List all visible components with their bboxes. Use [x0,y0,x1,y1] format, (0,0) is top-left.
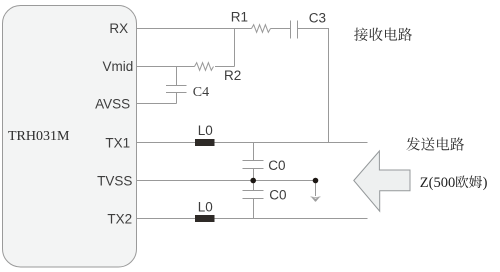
svg-text:TX2: TX2 [107,211,132,226]
svg-text:R1: R1 [231,9,248,24]
svg-text:Vmid: Vmid [103,59,134,74]
svg-text:Z(500: Z(500 [420,175,455,191]
svg-text:RX: RX [109,21,128,36]
svg-text:R2: R2 [224,68,241,83]
svg-text:C4: C4 [193,85,209,100]
svg-text:C0: C0 [269,188,286,203]
svg-text:TVSS: TVSS [97,173,132,188]
svg-text:C0: C0 [268,158,285,173]
svg-text:TX1: TX1 [105,135,130,150]
svg-text:L0: L0 [198,123,213,138]
svg-text:AVSS: AVSS [95,97,130,112]
svg-text:): ) [483,175,488,191]
svg-text:L0: L0 [198,200,213,215]
svg-text:TRH031M: TRH031M [8,129,70,144]
svg-text:C3: C3 [309,11,326,26]
